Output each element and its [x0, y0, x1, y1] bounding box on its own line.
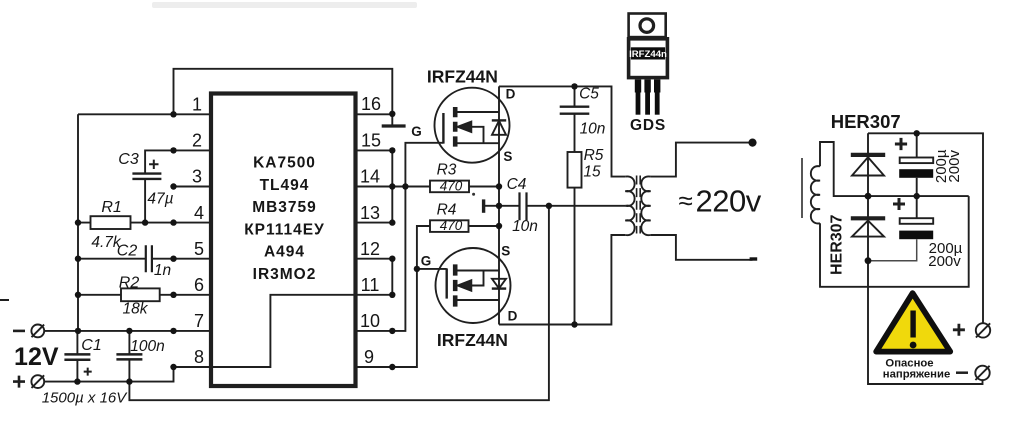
node pin2: [170, 147, 176, 153]
node rail minus: [75, 328, 81, 334]
Q2 source lead: [455, 270, 499, 272]
svg-text:15: 15: [361, 131, 381, 151]
watermark smudge: [152, 2, 417, 8]
capacitor Clow top wire: [916, 196, 918, 218]
node Cup top: [914, 130, 920, 136]
svg-text:IR3MO2: IR3MO2: [253, 266, 317, 283]
terminal output minus: [975, 366, 989, 380]
wire tie pins 15-14-13: [391, 150, 393, 222]
wire Clow bottom return: [868, 239, 917, 261]
right section secondary winding: [811, 166, 820, 223]
svg-text:200v: 200v: [946, 150, 963, 183]
svg-text:напряжение: напряжение: [883, 369, 950, 381]
node pin13: [389, 219, 395, 225]
C3 polarity plus: [149, 160, 158, 169]
node pin3: [170, 183, 176, 189]
plus sign input: [13, 376, 25, 388]
TO-220 legs: [635, 80, 661, 115]
svg-text:IRFZ44N: IRFZ44N: [427, 67, 498, 87]
svg-text:R4: R4: [437, 201, 457, 218]
node pin16: [389, 111, 395, 117]
node Clow return: [865, 257, 872, 264]
svg-text:8: 8: [194, 347, 204, 367]
wire left rail: [77, 114, 79, 331]
node output 220v top: [748, 139, 756, 147]
node pin1: [170, 111, 176, 117]
node C1 bottom: [74, 378, 80, 384]
capacitor Clow plates: [900, 218, 934, 224]
node mid D1 D2: [865, 193, 872, 200]
wire pin7 row: [44, 330, 209, 332]
node pin12: [389, 256, 395, 262]
capacitor C3 plates: [132, 174, 161, 179]
svg-text:R5: R5: [584, 147, 604, 164]
node R3 source: [496, 183, 502, 189]
node C3 R1: [142, 219, 148, 225]
node pin15: [389, 147, 395, 153]
capacitor C2 plates: [146, 245, 152, 272]
diode D2 triangle: [852, 221, 884, 237]
capacitor C1 bottom wire: [76, 360, 78, 382]
wire lower drain rail to transformer bottom: [499, 235, 625, 325]
wire pin4 row: [78, 222, 209, 224]
wire C3 bottom to R1 row: [144, 179, 146, 223]
Q1 channel bars: [453, 107, 458, 147]
node gate riser pin10: [402, 183, 408, 189]
wire pin8 stub: [174, 366, 210, 368]
right section: core line: [801, 158, 803, 218]
node pin10: [389, 328, 395, 334]
node R4 source: [496, 223, 502, 229]
svg-text:GDS: GDS: [630, 117, 666, 134]
svg-text:A494: A494: [264, 244, 305, 261]
TO-220 tab hole: [640, 19, 654, 33]
svg-text:4: 4: [194, 203, 204, 223]
svg-text:C1: C1: [81, 337, 101, 354]
transistor Q1 IRFZ44N upper circle: [435, 88, 510, 163]
Q1 substrate arrow: [470, 127, 484, 143]
diode D1 triangle: [852, 157, 884, 175]
node R5 bottom: [571, 321, 577, 327]
node center tap: [546, 203, 552, 209]
wire pin3 stub: [174, 186, 210, 188]
svg-text:C3: C3: [118, 151, 139, 168]
svg-text:КР1114ЕУ: КР1114ЕУ: [244, 221, 325, 238]
Q2 drain lead: [455, 299, 499, 301]
capacitor 100n bottom wire: [128, 359, 130, 381]
svg-text:470: 470: [440, 179, 463, 194]
svg-text:100n: 100n: [130, 338, 164, 355]
wire pin16 stub: [358, 113, 393, 115]
transformer T1 core: [637, 176, 641, 234]
capacitor Cup bottom wire: [916, 178, 918, 196]
wire lower gate: [417, 268, 447, 270]
wire pin5 row left: [78, 258, 146, 260]
wire pin5 row right: [152, 258, 209, 260]
transformer T1 secondary winding: [641, 176, 650, 235]
wire C4 to center tap node: [527, 205, 549, 207]
svg-text:11: 11: [361, 275, 380, 295]
svg-text:HER307: HER307: [829, 214, 846, 275]
IC U1 part numbers: [244, 155, 325, 284]
Q1 source lead: [455, 142, 499, 144]
resistor R1 body: [91, 216, 131, 229]
wire upper drain rail to transformer top: [499, 86, 625, 176]
warning exclamation: [910, 311, 915, 338]
wire secondary bottom to output: [651, 235, 753, 260]
TO-220 body: [629, 39, 668, 78]
Q2 gate plate: [446, 268, 448, 298]
Q1 body diode: [492, 119, 506, 121]
svg-text:13: 13: [360, 203, 380, 223]
node pin5: [170, 256, 176, 262]
svg-text:R1: R1: [101, 199, 121, 216]
svg-text:IRFZ44n: IRFZ44n: [629, 49, 667, 60]
svg-text:G: G: [421, 253, 432, 268]
svg-text:16: 16: [361, 94, 381, 114]
pin numbers left: [192, 95, 204, 368]
Q2 body diode: [492, 287, 506, 289]
stray mark left edge: [0, 299, 9, 301]
wire R3 to source line: [469, 186, 499, 188]
resistor R4 body: [430, 220, 469, 232]
svg-text:HER307: HER307: [831, 111, 901, 132]
Q2 substrate arrow: [470, 271, 484, 286]
wire drain-source line Q1/Q2: [498, 86, 500, 324]
wire winding top to mid node: [820, 142, 868, 196]
wire pin1 to left rail: [78, 113, 209, 115]
svg-text:12: 12: [360, 239, 380, 259]
diode D1 HER307 bar: [851, 153, 885, 157]
node pin14: [389, 183, 395, 189]
ground symbol pin16: [391, 114, 393, 125]
pin numbers right: [360, 94, 381, 367]
node pin4: [170, 219, 176, 225]
svg-text:1n: 1n: [154, 262, 171, 279]
resistor R2 body: [121, 288, 160, 301]
svg-text:18k: 18k: [123, 301, 149, 318]
wire pin6 row: [78, 294, 209, 296]
svg-text:6: 6: [194, 275, 204, 295]
svg-text:TL494: TL494: [260, 177, 310, 194]
node 100n top: [126, 328, 132, 334]
svg-text:220v: 220v: [696, 184, 762, 219]
node rail R1: [75, 219, 81, 225]
capacitor C1 top wire: [76, 331, 78, 355]
node rail C2: [75, 256, 81, 262]
wire source line to C4: [499, 205, 519, 207]
capacitor C4 plates: [520, 192, 527, 220]
wire winding bottom to frame bottom and mid riser: [820, 196, 969, 287]
terminal input plus: [31, 375, 44, 388]
output plus sign: [953, 324, 965, 336]
wire pin9 to R4 and lower gate: [358, 226, 431, 367]
wire pin13 stub: [358, 222, 393, 224]
transistor Q2 IRFZ44N lower circle: [436, 248, 511, 323]
svg-text:12V: 12V: [14, 343, 59, 371]
resistor R5 body: [568, 152, 582, 188]
node C4 source: [496, 203, 502, 209]
svg-text:1500µ x 16V: 1500µ x 16V: [42, 390, 129, 407]
svg-text:S: S: [503, 149, 512, 164]
svg-text:KA7500: KA7500: [253, 155, 316, 172]
resistor R3 body: [430, 181, 469, 193]
svg-text:1: 1: [192, 95, 202, 115]
wire plus row: [44, 367, 173, 382]
svg-text:9: 9: [364, 347, 374, 367]
output minus sign: [956, 371, 968, 374]
svg-text:R3: R3: [437, 161, 457, 178]
minus sign input: [13, 330, 25, 333]
wire R4 to source line: [469, 225, 500, 227]
node C5 top: [571, 83, 577, 89]
wire pin2 stub: [174, 149, 210, 151]
Clow polarity plus: [893, 198, 905, 210]
node pin11: [389, 292, 395, 298]
svg-text:10: 10: [360, 311, 380, 331]
wire C5 top: [574, 86, 576, 106]
svg-text:D: D: [506, 86, 516, 101]
wire pin15 stub: [358, 149, 393, 151]
wire pin10 to upper gate: [358, 143, 444, 331]
svg-text:3: 3: [192, 167, 202, 187]
svg-text:7: 7: [194, 311, 204, 331]
wire top rail HER307: [868, 133, 983, 323]
TO-220 label band: [631, 47, 665, 59]
node gate riser pin9: [414, 266, 420, 272]
warning triangle: [876, 293, 950, 351]
wire pin2 to C3: [145, 150, 173, 173]
wire secondary top to output: [651, 143, 752, 177]
Q1 gate plate: [442, 113, 444, 144]
capacitor C4 tap bar: [482, 199, 485, 212]
svg-text:200v: 200v: [928, 253, 961, 270]
svg-text:G: G: [411, 124, 422, 139]
wire tap bar to source line: [484, 205, 499, 207]
wire R5 bottom: [574, 188, 576, 325]
terminal input minus: [31, 325, 44, 338]
TO-220 package tab: [629, 14, 666, 38]
node Cup bottom: [914, 193, 920, 199]
capacitor C5 plates: [560, 107, 590, 114]
svg-text:470: 470: [440, 218, 463, 233]
stray dot near R3: [472, 193, 475, 196]
svg-text:≈: ≈: [679, 186, 693, 216]
svg-text:47µ: 47µ: [147, 190, 173, 207]
svg-text:IRFZ44N: IRFZ44N: [437, 330, 508, 350]
svg-text:MB3759: MB3759: [252, 199, 317, 216]
capacitor Cup plates: [900, 158, 934, 164]
wire pin8 to pin11 through IC: [209, 295, 392, 367]
diode D2 HER307 bar: [851, 216, 885, 220]
capacitor C1 plates: [64, 354, 90, 359]
node pin7: [170, 328, 176, 334]
wire tie pins 12-11: [391, 259, 393, 295]
svg-text:5: 5: [194, 239, 204, 259]
svg-text:10n: 10n: [512, 218, 538, 235]
wire center tap: [549, 205, 625, 207]
wire pin12 stub: [358, 258, 393, 260]
svg-text:15: 15: [583, 163, 601, 180]
svg-text:2: 2: [192, 131, 202, 151]
wire pin14 row to R3: [358, 186, 431, 188]
svg-text:D: D: [508, 308, 518, 323]
wire rectifier line D1 D2: [868, 133, 983, 384]
capacitor 100n plates: [116, 354, 142, 359]
svg-text:C2: C2: [117, 242, 138, 259]
wire C5 to R5: [574, 114, 576, 152]
node pin8: [170, 364, 176, 370]
svg-text:C5: C5: [579, 86, 599, 103]
wire top link pin1 to pin16: [174, 69, 393, 115]
Cup polarity plus: [895, 138, 907, 150]
node rail R2: [75, 292, 81, 298]
svg-text:14: 14: [360, 167, 380, 187]
transformer T1 primary winding: [625, 176, 634, 235]
capacitor Cup top wire: [916, 133, 918, 157]
svg-text:10n: 10n: [580, 120, 606, 137]
wire bottom rail to transformer center tap: [129, 206, 549, 400]
Q2 channel bars: [453, 264, 458, 306]
svg-text:C4: C4: [507, 176, 527, 193]
svg-text:S: S: [501, 244, 510, 259]
node 100n bottom: [126, 378, 132, 384]
capacitor 100n top wire: [128, 331, 130, 355]
node pin9: [389, 364, 395, 370]
svg-text:R2: R2: [119, 274, 140, 291]
Q1 drain lead: [455, 111, 499, 113]
node output 220v bottom dash: [750, 257, 758, 260]
node pin6: [170, 292, 176, 298]
C1 polarity plus: [84, 368, 92, 376]
wire mid node: [868, 195, 969, 197]
IC U1 KA7500/TL494 box: [211, 94, 356, 387]
terminal output plus: [976, 323, 990, 337]
